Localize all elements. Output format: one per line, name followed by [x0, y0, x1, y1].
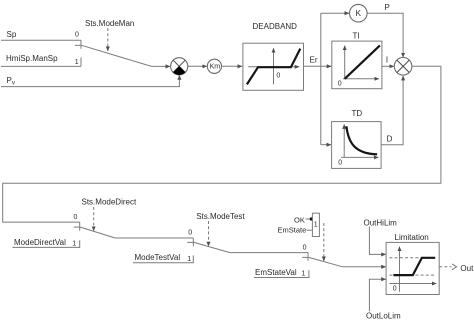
gain block K	[350, 4, 368, 22]
wire K to SUM2 top	[367, 13, 403, 57]
Limitation horizontal axis	[389, 283, 436, 285]
svg-text:0: 0	[188, 230, 192, 237]
svg-text:0: 0	[393, 286, 397, 293]
wire TI output to SUM2	[382, 65, 394, 67]
wire SUM1 to Km	[188, 65, 207, 67]
svg-text:0: 0	[75, 32, 79, 39]
wire branch to K	[321, 12, 349, 14]
DEADBAND characteristic curve	[247, 49, 300, 85]
TI integrator ramp curve	[345, 45, 380, 78]
svg-text:Out: Out	[460, 264, 474, 273]
svg-text:P: P	[385, 3, 390, 12]
wire ModeDirectVal input	[13, 240, 80, 247]
svg-text:0: 0	[338, 160, 342, 167]
svg-text:DEADBAND: DEADBAND	[253, 22, 298, 31]
svg-text:1: 1	[302, 271, 306, 278]
switch S3 pole stub	[187, 241, 194, 243]
svg-text:I: I	[386, 56, 388, 65]
TD horizontal axis	[341, 156, 378, 158]
svg-text:Sts.ModeMan: Sts.ModeMan	[85, 19, 134, 28]
Limitation vertical axis	[399, 247, 401, 292]
logic gate OR box 1	[312, 213, 319, 236]
block TD	[332, 122, 382, 169]
DEADBAND horizontal axis	[248, 66, 299, 68]
svg-text:0: 0	[303, 245, 307, 252]
svg-text:OutLoLim: OutLoLim	[366, 312, 401, 321]
svg-text:D: D	[387, 135, 393, 144]
junction dot OK	[310, 217, 313, 220]
switch S1 terminal 1 tick	[80, 58, 82, 67]
wire EmState dashed control	[323, 223, 325, 261]
switch S1 blade	[82, 45, 152, 66]
wire Sts.ModeMan dashed control	[107, 28, 109, 51]
svg-text:OutHiLim: OutHiLim	[364, 219, 398, 228]
wire Sts.ModeTest dashed control	[208, 221, 210, 246]
TI vertical axis	[344, 46, 346, 79]
summing junction SUM1	[171, 58, 188, 75]
TD vertical axis	[343, 124, 345, 157]
TD derivative decay curve	[346, 126, 377, 154]
wire Km to DEADBAND	[222, 65, 243, 67]
wire EmState input	[307, 229, 313, 231]
svg-text:ModeTestVal: ModeTestVal	[135, 253, 181, 262]
svg-text:Sts.ModeDirect: Sts.ModeDirect	[82, 198, 137, 207]
Limitation lower limit dashed	[389, 274, 435, 276]
switch S4 blade	[309, 257, 343, 266]
switch S3 terminal 0 tick	[192, 238, 194, 246]
svg-text:1: 1	[314, 222, 318, 229]
wire Pv input	[1, 75, 179, 86]
wire OK input	[306, 218, 310, 220]
block Limitation	[386, 242, 439, 294]
wire Er branch vertical	[320, 13, 322, 145]
Limitation saturation curve	[393, 258, 435, 275]
wire Out dashed output	[439, 266, 451, 268]
summing junction SUM2	[394, 58, 412, 76]
svg-text:EmStateVal: EmStateVal	[255, 268, 297, 277]
switch S2 blade	[80, 227, 115, 238]
wire TD output to SUM2 bottom	[381, 76, 403, 145]
svg-text:TD: TD	[352, 109, 363, 118]
svg-text:OK: OK	[294, 215, 305, 224]
switch S2 pole stub	[74, 226, 81, 228]
wire EmStateVal input	[254, 270, 309, 277]
switch S2 terminal 0 tick	[79, 222, 81, 231]
Limitation upper limit dashed	[389, 257, 435, 259]
svg-text:0: 0	[338, 81, 342, 88]
svg-text:Sp: Sp	[7, 30, 17, 39]
wire S3 output	[230, 252, 308, 254]
svg-text:K: K	[356, 9, 362, 18]
svg-text:1: 1	[72, 241, 76, 248]
svg-text:EmState: EmState	[278, 226, 307, 235]
wire ModeTestVal input	[133, 255, 193, 262]
wire OutHiLim input	[369, 227, 385, 255]
wire Sp input	[1, 39, 81, 41]
TI horizontal axis	[343, 78, 379, 80]
wire SUM2 output feedback path	[3, 66, 441, 222]
switch S1 pole stub	[75, 44, 82, 46]
wire HmiSp.ManSp input	[1, 65, 81, 67]
wire S2 output	[115, 237, 193, 239]
switch S1 terminal 0 tick	[80, 40, 82, 49]
switch S3 blade	[194, 242, 230, 252]
block DEADBAND	[243, 43, 304, 90]
wire Sts.ModeDirect dashed control	[93, 207, 95, 231]
svg-text:TI: TI	[353, 32, 360, 41]
svg-text:ModeDirectVal: ModeDirectVal	[14, 238, 66, 247]
gain block Km	[207, 59, 221, 73]
svg-text:Sts.ModeTest: Sts.ModeTest	[196, 212, 245, 221]
svg-text:Limitation: Limitation	[395, 233, 429, 242]
wire Er from DEADBAND to TI	[304, 65, 332, 67]
wire S1 output to summer	[152, 65, 171, 67]
svg-text:1: 1	[75, 59, 79, 66]
block TI	[332, 41, 382, 89]
DEADBAND vertical axis	[273, 48, 275, 84]
wire S4 output to Limitation	[343, 266, 386, 268]
svg-text:1: 1	[187, 256, 191, 263]
svg-text:HmiSp.ManSp: HmiSp.ManSp	[6, 54, 58, 63]
svg-text:0: 0	[74, 214, 78, 221]
svg-text:0: 0	[276, 73, 280, 80]
svg-text:Km: Km	[210, 64, 221, 71]
switch S4 pole stub	[302, 256, 309, 258]
wire branch to TD	[321, 144, 331, 146]
switch S4 terminal 0 tick	[307, 252, 309, 261]
svg-text:Er: Er	[310, 56, 318, 65]
wire OutLoLim input	[369, 279, 385, 311]
